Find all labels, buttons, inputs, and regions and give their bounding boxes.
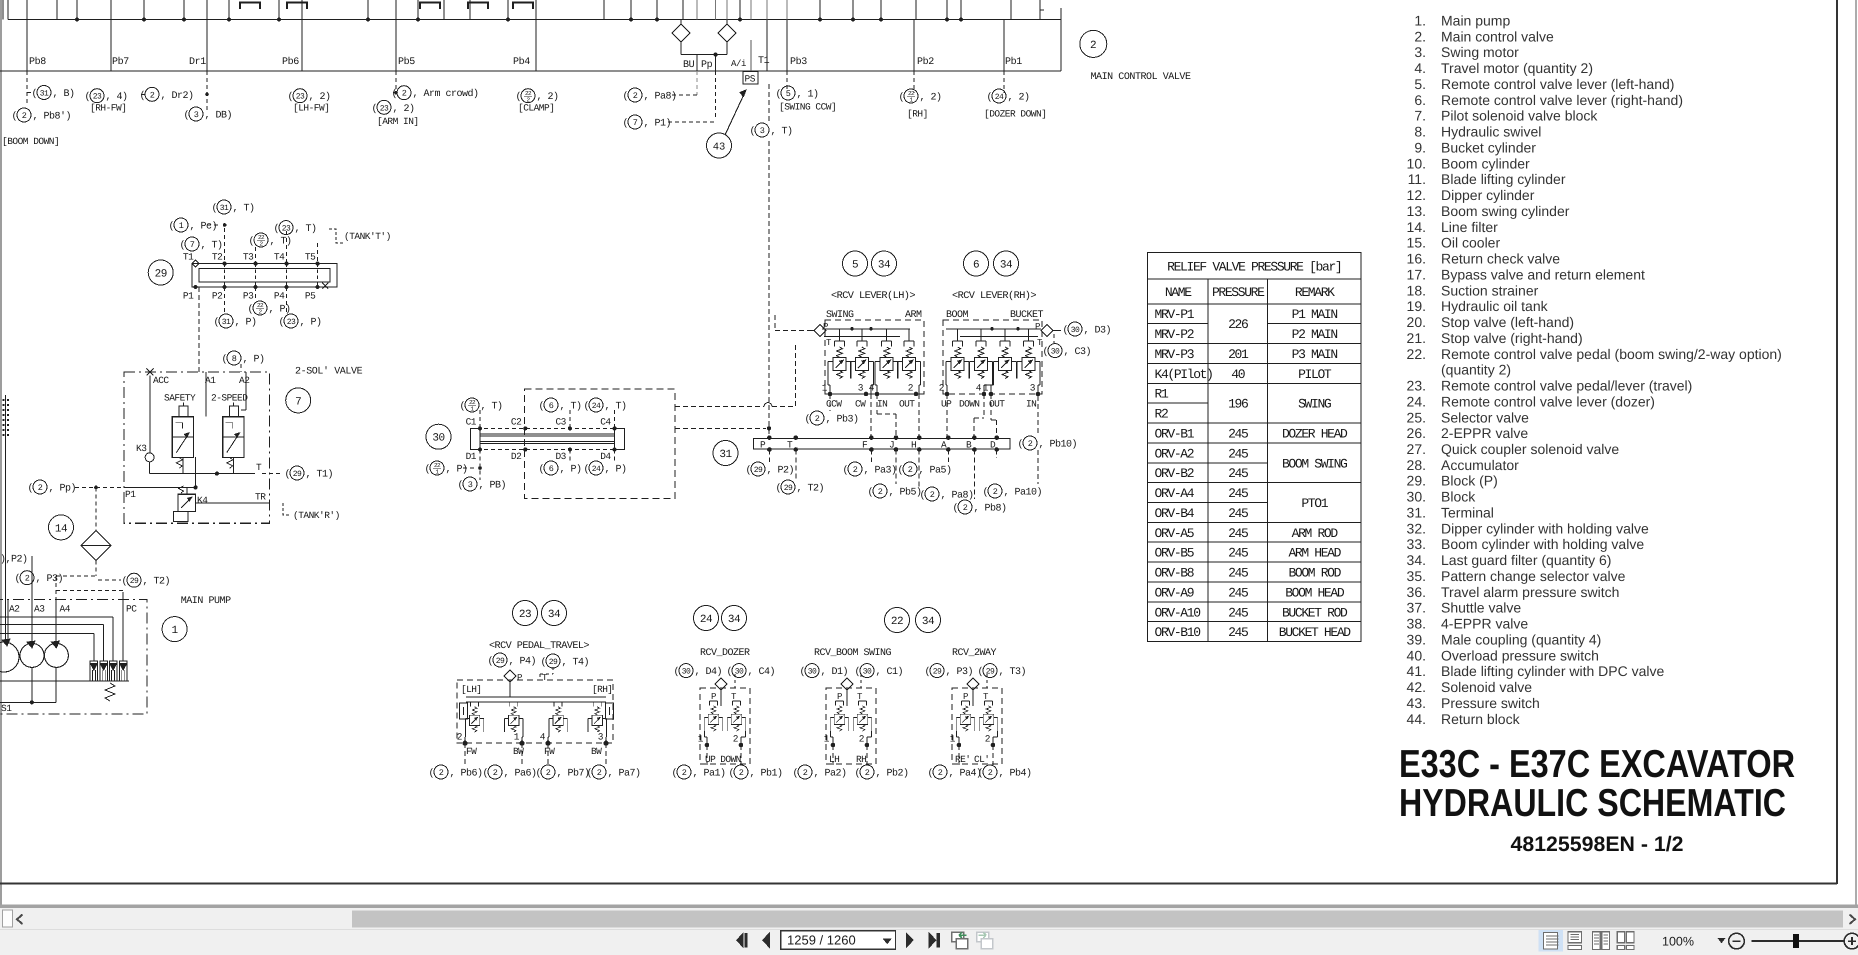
svg-text:5: 5 [852,260,858,272]
svg-text:J: J [889,439,894,450]
check valve diamond BU [672,24,690,42]
svg-text:21.: 21. [1407,330,1426,346]
block 30 left cap [470,428,480,449]
svg-text:Pb1: Pb1 [1005,56,1022,68]
svg-text:, 4): , 4) [106,91,128,103]
LH reducing valves [828,341,851,379]
svg-text:ORV-B4: ORV-B4 [1155,506,1195,521]
svg-text:29: 29 [293,470,302,479]
solenoid valve SAFETY [172,403,193,469]
LH port dots and numerals [822,383,919,397]
annotation (8, P) [222,351,265,366]
svg-text:A2: A2 [239,375,250,386]
svg-text:ORV-B5: ORV-B5 [1155,546,1194,561]
annotation (29, P2) [746,462,795,477]
svg-text:BOOM HEAD: BOOM HEAD [1285,585,1345,600]
svg-text:, Pa6): , Pa6) [504,768,537,780]
dashed PC routing [56,590,124,592]
svg-text:2: 2 [150,90,155,100]
PS pressure switch box [743,72,758,85]
svg-text:, C4): , C4) [748,666,776,678]
page bottom border [0,883,1837,885]
block P P-port dots and labels [183,283,328,302]
svg-text:245: 245 [1228,446,1248,461]
RCV lever RH dashed outline [943,320,1042,394]
main control valve upper rail line [8,19,1061,21]
svg-text:, T): , T) [270,236,292,248]
svg-text:Hydraulic oil tank: Hydraulic oil tank [1441,298,1549,314]
RCV lever LH dashed outline [825,320,924,394]
svg-text:29: 29 [784,484,793,493]
svg-text:, Pa2): , Pa2) [814,768,847,780]
travel bus lines [466,696,606,698]
svg-text:, D3): , D3) [1084,325,1112,337]
svg-text:(: ( [425,464,431,476]
svg-text:(TANK'T'): (TANK'T') [344,231,391,242]
svg-text:37.: 37. [1407,600,1426,616]
svg-text:2: 2 [739,768,744,778]
svg-text:1: 1 [824,734,830,745]
svg-text:2.: 2. [1414,28,1426,44]
svg-text:, T): , T) [560,401,582,413]
annotation (2, Pa1) [672,765,726,780]
svg-text:18.: 18. [1407,282,1426,298]
balloon 2 main control valve [1080,30,1107,57]
svg-text:2: 2 [963,503,968,513]
long pilot dashed line T1 to terminal P [768,84,770,124]
svg-text:(: ( [539,401,545,413]
RCV 2way block [952,688,1002,764]
svg-text:A3: A3 [34,604,45,615]
svg-text:, T4): , T4) [562,657,590,669]
parts list [1407,13,1782,727]
dashed drop to filter [95,487,97,531]
cut-off spring symbols above rail [240,3,533,10]
annotation (30, D1) [800,664,849,679]
svg-text:43: 43 [713,142,726,154]
block 30 right cap [615,428,625,449]
svg-text:P: P [711,692,716,702]
pump outlet check elements [90,661,97,681]
travel P diamond [504,670,516,682]
dashed link to terminal T [675,427,766,429]
svg-text:2: 2 [878,487,883,497]
svg-text:H: H [911,439,916,450]
svg-text:ORV-A4: ORV-A4 [1155,486,1195,501]
page right border [1836,0,1838,884]
annotation (24, 2) DOZER DOWN [987,89,1030,104]
LH P bus [822,328,910,330]
svg-text:Remote control valve pedal (bo: Remote control valve pedal (boom swing/2… [1441,346,1782,362]
svg-text:T: T [787,439,793,450]
svg-text:Bypass valve and return elemen: Bypass valve and return element [1441,266,1645,282]
svg-text:(: ( [587,768,593,780]
svg-text:, T2): , T2) [143,576,171,588]
LH port names [826,399,915,410]
svg-text:, D1): , D1) [821,666,849,678]
svg-text:CL': CL' [974,754,989,765]
RCV dozer block [700,688,750,764]
svg-text:, D4): , D4) [695,666,723,678]
svg-text:ORV-A9: ORV-A9 [1155,585,1194,600]
svg-text:BUCKET: BUCKET [1010,310,1044,321]
svg-text:Pilot solenoid valve block: Pilot solenoid valve block [1441,108,1598,124]
svg-text:A: A [941,439,947,450]
svg-text:(: ( [674,666,680,678]
svg-text:7.: 7. [1414,108,1426,124]
svg-text:Blade lifting cylinder with DP: Blade lifting cylinder with DPC valve [1441,663,1665,679]
svg-text:[SWING CCW]: [SWING CCW] [779,102,836,113]
K3 check ball circle [145,453,154,462]
dashed elbow to (30,C3) [1053,334,1055,343]
annotation (2, Dr2) [140,87,194,102]
main pump enclosure [0,599,147,714]
annotation (30, C4) [727,664,776,679]
next view button disabled [977,932,993,948]
svg-text:4: 4 [976,383,982,394]
svg-text:24.: 24. [1407,393,1426,409]
svg-text:, Pb5): , Pb5) [889,487,922,499]
svg-text:22.: 22. [1407,346,1426,362]
svg-text:29: 29 [754,466,763,475]
svg-text:, Pb4): , Pb4) [999,768,1032,780]
svg-text:4: 4 [540,732,546,743]
svg-text:4: 4 [869,383,875,394]
svg-text:ORV-B1: ORV-B1 [1155,426,1195,441]
svg-text:Pb6: Pb6 [282,56,299,68]
svg-text:, DB): , DB) [205,110,233,122]
svg-text:2: 2 [682,768,687,778]
svg-text:(: ( [584,464,590,476]
svg-text:(: ( [180,240,186,252]
port line Pb1 [1003,20,1005,72]
supply line P3 to pump [31,556,33,599]
svg-text:Travel alarm pressure switch: Travel alarm pressure switch [1441,584,1619,600]
svg-text:Hydraulic swivel: Hydraulic swivel [1441,124,1541,140]
svg-text:F: F [862,439,868,450]
svg-text:30: 30 [808,668,817,677]
svg-text:Dr1: Dr1 [189,57,206,68]
svg-text:36.: 36. [1407,584,1426,600]
svg-text:, C3): , C3) [1064,346,1092,358]
pump unit circle 1 [0,642,19,672]
main control valve bottom edge [0,70,1061,72]
svg-text:Pressure switch: Pressure switch [1441,695,1540,711]
svg-text:ORV-B8: ORV-B8 [1155,566,1194,581]
P1 supply wire [124,486,196,488]
svg-text:15.: 15. [1407,235,1426,251]
svg-text:Pb4: Pb4 [513,56,530,68]
svg-text:E33C - E37C EXCAVATOR: E33C - E37C EXCAVATOR [1399,743,1795,786]
pilot solenoid valve block outline [124,372,269,523]
annotation (29, T1) [285,466,334,481]
BU drop line [696,55,698,71]
annotation (2, Pb10) [1018,436,1078,451]
svg-text:, C1): , C1) [876,666,904,678]
dashed stubs below block P [225,287,287,314]
svg-text:B: B [966,439,972,450]
annotation (22/2, T) [249,233,292,248]
svg-text:12.: 12. [1407,187,1426,203]
T collector wire [149,462,151,474]
svg-text:ARM ROD: ARM ROD [1292,526,1339,541]
annotation (24, T) [584,398,627,413]
svg-text:(: ( [776,89,782,101]
svg-text:Accumulator: Accumulator [1441,457,1519,473]
svg-text:, T2): , T2) [797,483,825,495]
svg-text:29: 29 [130,577,139,586]
svg-text:LH: LH [829,754,839,765]
svg-text:, T1): , T1) [306,469,334,481]
svg-text:Overload pressure switch: Overload pressure switch [1441,647,1599,663]
svg-text:245: 245 [1228,625,1248,640]
svg-text:BOOM ROD: BOOM ROD [1288,566,1341,581]
svg-text:ARM HEAD: ARM HEAD [1288,546,1341,561]
travel port dots and numerals [457,732,609,746]
svg-text:(: ( [729,768,735,780]
previous view button [952,932,968,948]
annotation (2, Pa8) [623,88,677,103]
svg-text:(: ( [249,236,255,248]
svg-text:13.: 13. [1407,203,1426,219]
svg-text:5: 5 [786,89,791,99]
svg-text:(: ( [15,573,21,585]
svg-text:T2: T2 [212,252,223,263]
terminal port letters [760,439,996,450]
svg-text:(: ( [212,203,218,215]
svg-text:, P): , P) [560,464,582,476]
annotation (6, T) [539,398,582,413]
svg-text:2: 2 [402,89,407,99]
svg-text:Bucket cylinder: Bucket cylinder [1441,140,1536,156]
main control valve partial symbol at top right corner [1040,10,1044,18]
svg-text:TR: TR [255,492,266,503]
svg-text:T3: T3 [243,252,254,263]
annotation (31, P) [214,314,257,329]
svg-text:HYDRAULIC SCHEMATIC: HYDRAULIC SCHEMATIC [1399,782,1786,825]
svg-text:C3: C3 [555,417,566,428]
svg-text:P1 MAIN: P1 MAIN [1292,307,1338,322]
svg-text:PC: PC [126,604,137,615]
svg-text:RCV_BOOM SWING: RCV_BOOM SWING [814,648,892,659]
svg-text:(: ( [978,768,984,780]
svg-text:30: 30 [1071,326,1080,335]
dashed filter to pump A4 [95,561,97,577]
svg-text:Pattern change selector valve: Pattern change selector valve [1441,568,1626,584]
svg-text:ACC: ACC [153,375,169,386]
balloon 22 RCV pedal boom swing [885,608,910,633]
svg-text:BUCKET HEAD: BUCKET HEAD [1279,625,1352,640]
RH port dots and numerals [939,383,1041,397]
svg-text:, P): , P) [243,354,265,366]
svg-text:2: 2 [939,383,945,394]
svg-text:(: ( [843,465,849,477]
svg-text:2: 2 [938,768,943,778]
svg-text:DOWN: DOWN [959,399,979,410]
svg-text:28.: 28. [1407,457,1426,473]
svg-text:2-EPPR valve: 2-EPPR valve [1441,425,1528,441]
zoom slider track [1752,940,1845,942]
pdf viewer left window edge [0,0,2,905]
svg-text:Return check valve: Return check valve [1441,251,1560,267]
svg-text:34: 34 [1000,260,1013,272]
svg-text:T1: T1 [758,56,770,67]
two page layout button [1593,932,1610,950]
annotation (31, T) [212,200,255,215]
svg-text:23: 23 [296,93,305,102]
wire A2 down [245,372,247,410]
svg-text:7: 7 [633,118,638,128]
svg-text:, Pa8): , Pa8) [644,91,677,103]
balloon 34 last guard filter boom swing [916,608,941,633]
port line Dr1 [206,20,208,72]
svg-text:(: ( [372,103,378,115]
svg-text:, PB): , PB) [479,480,507,492]
svg-text:Main control valve: Main control valve [1441,28,1554,44]
page number box [781,931,896,949]
svg-text:245: 245 [1228,566,1248,581]
svg-text:23.: 23. [1407,378,1426,394]
balloon 34 last guard filter dozer [722,606,747,631]
svg-text:R2: R2 [1155,407,1168,422]
dashed link to terminal P [675,406,764,408]
svg-text:100%: 100% [1662,935,1694,949]
svg-text:34: 34 [878,260,891,272]
svg-text:, Pb10): , Pb10) [1039,439,1078,451]
svg-text:P: P [823,322,828,332]
svg-text:Solenoid valve: Solenoid valve [1441,679,1532,695]
svg-text:C4: C4 [600,417,611,428]
zoom in button [1844,933,1858,949]
annotation (2, Pb8) [953,500,1007,515]
svg-text:Remote control valve lever (le: Remote control valve lever (left-hand) [1441,76,1674,92]
svg-text:(: ( [1043,346,1049,358]
svg-text:(: ( [855,666,861,678]
svg-text:K3: K3 [136,443,147,454]
svg-text:, Pa10): , Pa10) [1004,487,1043,499]
svg-text:, Pb8): , Pb8) [974,503,1007,515]
svg-text:P4: P4 [274,291,285,302]
svg-text:29: 29 [933,668,942,677]
svg-text:48125598EN - 1/2: 48125598EN - 1/2 [1511,833,1684,856]
svg-text:(: ( [805,414,811,426]
balloon 24 RCV lever dozer [694,606,719,631]
RH P bus [946,328,1041,330]
svg-text:Shuttle valve: Shuttle valve [1441,600,1521,616]
svg-text:4.: 4. [1414,60,1426,76]
svg-text:C1: C1 [466,417,477,428]
svg-text:A2: A2 [9,604,20,615]
svg-text:, Pa3): , Pa3) [864,465,897,477]
svg-text:29: 29 [496,657,505,666]
annotation (22/2, P) [248,301,291,316]
scrollbar right arrow [1850,915,1856,925]
svg-text:Dipper cylinder with holding v: Dipper cylinder with holding valve [1441,520,1649,536]
svg-text:30: 30 [863,668,872,677]
block 30 C port dots and labels [466,417,625,431]
annotation (2, Pb4) [978,765,1032,780]
svg-text:, P): , P) [235,317,257,329]
port line Pb3 [786,20,788,72]
travel end solenoid boxes [460,703,468,719]
svg-text:19.: 19. [1407,298,1426,314]
svg-text:2: 2 [988,768,993,778]
svg-text:1: 1 [172,625,179,637]
annotation (30, D4) [674,664,723,679]
svg-text:Block: Block [1441,489,1476,505]
svg-text:2: 2 [815,414,820,424]
svg-text:Boom swing cylinder: Boom swing cylinder [1441,203,1570,219]
port line Pb2 [913,20,915,72]
travel dashed stubs below [465,743,606,765]
K4 relief valve [178,494,196,511]
svg-text:P5: P5 [305,291,316,302]
svg-text:25.: 25. [1407,409,1426,425]
svg-text:1: 1 [514,732,520,743]
svg-text:30.: 30. [1407,489,1426,505]
annotation (2, Pb3) [805,411,859,426]
svg-text:(: ( [855,768,861,780]
annotation (29, T2) [122,573,171,588]
svg-text:P3: P3 [243,291,254,302]
svg-text:(TANK'R'): (TANK'R') [293,510,340,521]
svg-text:, Pa5): , Pa5) [919,465,952,477]
svg-text:(: ( [85,91,91,103]
svg-text:[LH]: [LH] [461,684,481,695]
block 30 rails [480,434,615,444]
svg-text:2: 2 [493,768,498,778]
svg-text:Dipper cylinder: Dipper cylinder [1441,187,1535,203]
selector dashed enclosure [525,389,675,498]
svg-text:OUT: OUT [899,399,915,410]
annotation (30, D3) [1063,322,1112,337]
svg-text:, 2): , 2) [1008,92,1030,104]
annotation (23, 2) ARM IN [372,100,415,115]
svg-text:Block (P): Block (P) [1441,473,1498,489]
svg-text:T: T [731,692,737,702]
svg-text:4-EPPR valve: 4-EPPR valve [1441,616,1528,632]
balloon 5 RCV lever LH [843,251,868,276]
svg-text:, 2): , 2) [309,91,331,103]
dashed feed to LH P diamond [775,330,810,332]
svg-text:16.: 16. [1407,251,1426,267]
svg-text:, Pp): , Pp) [49,483,77,495]
svg-text:34: 34 [728,614,741,626]
svg-text:, P): , P) [605,464,627,476]
balloon 34 last guard filter travel [542,601,567,626]
TR wire [196,502,269,504]
svg-text:(: ( [274,223,280,235]
A/i line [750,40,752,71]
svg-text:(: ( [541,657,547,669]
svg-text:BOOM: BOOM [946,310,969,321]
annotation (2, Pa3) [843,462,897,477]
svg-text:Terminal: Terminal [1441,505,1494,521]
svg-text:1: 1 [983,383,989,394]
svg-text:REMARK: REMARK [1295,285,1335,300]
svg-text:MRV-P1: MRV-P1 [1155,307,1195,322]
svg-text:7: 7 [190,240,195,250]
svg-text:, T): , T) [481,401,503,413]
svg-text:2-SOL' VALVE: 2-SOL' VALVE [295,366,363,378]
svg-text:, P3): , P3) [36,573,64,585]
svg-text:K4: K4 [197,495,208,506]
svg-text:(: ( [460,401,466,413]
svg-text:(: ( [983,487,989,499]
left auxiliary line [2,0,4,20]
svg-text:Pb8: Pb8 [29,56,46,68]
svg-text:31: 31 [719,449,732,461]
